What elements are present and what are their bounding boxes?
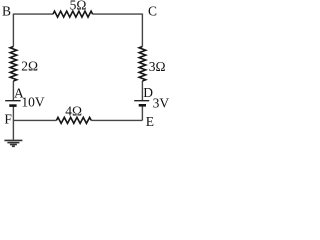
svg-text:F: F — [4, 111, 12, 126]
svg-text:B: B — [2, 3, 11, 18]
svg-text:4Ω: 4Ω — [65, 103, 82, 118]
svg-text:5Ω: 5Ω — [70, 0, 87, 13]
svg-text:3Ω: 3Ω — [149, 59, 166, 74]
svg-text:3V: 3V — [153, 96, 170, 111]
svg-text:C: C — [148, 3, 157, 18]
svg-text:2Ω: 2Ω — [21, 58, 38, 73]
svg-text:10V: 10V — [21, 94, 45, 109]
svg-text:E: E — [146, 114, 154, 129]
